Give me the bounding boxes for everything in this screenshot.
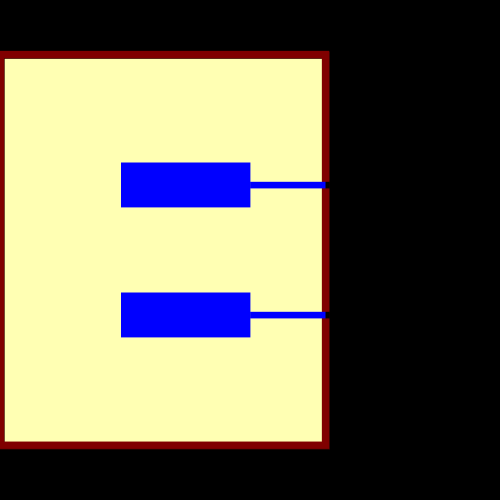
body outline under-stroke (dark inner edge, offset down-right) [1, 55, 326, 446]
pin 1 wire [250, 182, 325, 189]
component body U1 (yellow fill) [0, 55, 325, 446]
pin 2 wire [250, 312, 325, 319]
pin 2 body (blue rectangle) [121, 293, 250, 338]
body outline (maroon) [0, 55, 325, 446]
pin 1 body (blue rectangle) [121, 163, 250, 208]
pin 1 wire stub (black tip over border) [326, 182, 330, 189]
pin 2 wire stub (black tip over border) [326, 312, 330, 319]
